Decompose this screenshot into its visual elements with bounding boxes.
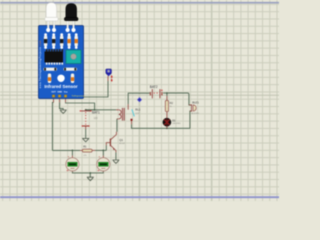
svg-text:OUT: OUT [51, 92, 56, 94]
svg-text:+: + [68, 155, 70, 158]
svg-text:12V: 12V [135, 113, 139, 115]
svg-text:GND: GND [57, 92, 62, 94]
svg-text:Infrared Sensor: Infrared Sensor [44, 84, 78, 89]
svg-text:www.TheEngineeringProjects.com: www.TheEngineeringProjects.com [39, 40, 42, 88]
svg-text:RL1: RL1 [135, 108, 141, 112]
svg-text:BUZ1: BUZ1 [192, 100, 199, 104]
svg-text:47k: 47k [83, 155, 86, 157]
svg-text:Q1: Q1 [119, 138, 123, 142]
svg-text:R2: R2 [170, 101, 174, 105]
svg-text:+: + [99, 155, 101, 158]
svg-text:BAT2: BAT2 [150, 85, 158, 89]
svg-text:BAT1: BAT1 [92, 111, 100, 115]
svg-text:BC547: BC547 [119, 143, 125, 145]
svg-text:R1: R1 [83, 144, 87, 148]
svg-text:TheEngineering: TheEngineering [72, 96, 85, 98]
svg-text:D1: D1 [172, 118, 176, 122]
svg-text:12V: 12V [94, 118, 99, 120]
svg-text:LED-RED: LED-RED [172, 123, 181, 125]
svg-text:1k: 1k [170, 106, 173, 108]
svg-text:BUZZER: BUZZER [191, 113, 199, 115]
